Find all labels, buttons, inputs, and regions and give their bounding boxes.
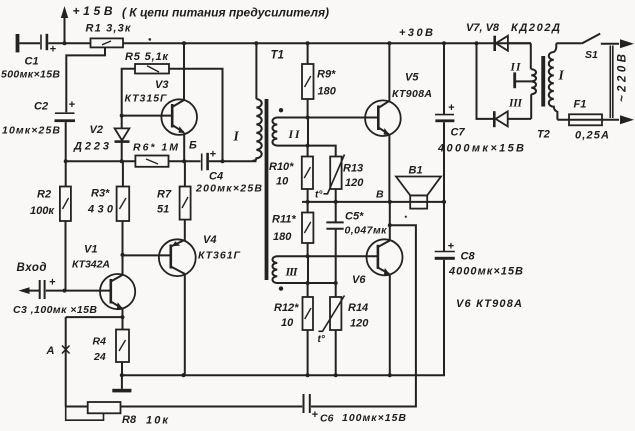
svg-text:V7, V8: V7, V8 [466,22,500,34]
wire R5 left rail [122,69,135,129]
wire V1 base [46,290,111,292]
node winding III top [306,254,310,258]
svg-text:0,25А: 0,25А [575,130,609,142]
resistor R14 thermal [319,283,345,375]
wire top rail [123,42,531,44]
svg-text:0,047мк: 0,047мк [345,225,388,237]
wire node B rail [302,201,444,203]
transistor V5 [365,43,401,202]
svg-text:V6: V6 [352,274,366,286]
svg-text:180: 180 [318,86,337,98]
resistor R9 [302,43,314,117]
wire feedback to node B [311,225,416,406]
speck [405,216,407,218]
diode V2 [115,128,130,161]
svg-text:R11*: R11* [272,214,296,226]
svg-text:+: + [50,44,57,56]
svg-text:+: + [448,241,455,253]
svg-text:+: + [210,149,217,161]
capacitor C4 [202,149,257,171]
svg-text:+: + [49,277,56,289]
capacitor C1 [16,34,91,56]
svg-text:Т1: Т1 [271,50,284,62]
node A cross mark [62,346,70,354]
svg-text:R14: R14 [348,302,368,314]
T2 winding I [549,43,558,119]
svg-text:R3*: R3* [91,188,110,200]
svg-text:C5*: C5* [345,211,364,223]
resistor R13 thermal [308,146,345,202]
svg-text:100мк×15В: 100мк×15В [342,412,406,424]
T1 winding II [272,108,308,146]
svg-text:t°: t° [315,190,323,201]
resistor R6 [135,156,168,167]
node junction dots on top rail [63,38,479,45]
svg-text:R7: R7 [157,189,172,201]
wire R2 to input node [65,221,67,291]
node feedback tap [388,223,392,227]
wire V3 base [122,115,172,117]
svg-text:КТ315Г: КТ315Г [125,93,168,105]
T2 winding III [531,81,536,119]
mains dimension lines [610,46,613,119]
transformer T2 core [541,56,545,107]
svg-text:R13: R13 [343,163,363,175]
wire V1 collector [122,221,124,275]
node winding II top [306,116,310,120]
transistor V1 [100,274,135,330]
svg-text:( К цепи питания предусилите: ( К цепи питания предусилителя) [122,6,329,20]
svg-text:V1: V1 [84,244,97,256]
capacitor C8 [435,202,455,375]
svg-text:R12*: R12* [274,302,299,314]
svg-text:I: I [558,68,565,83]
switch S1 [556,34,634,49]
wire node A vertical [65,317,67,406]
transistor V3 [161,43,197,161]
svg-text:+: + [448,102,455,114]
svg-text:I: I [233,129,240,144]
resistor R10 [302,146,313,202]
svg-text:III: III [508,98,523,110]
svg-text:V4: V4 [203,234,216,246]
svg-text:V3: V3 [155,79,168,91]
speaker B1 [396,177,441,209]
node dots on Б rail [64,159,225,163]
capacitor C3 [40,277,56,300]
wire V8 branch [477,43,495,119]
transistor V4 [123,220,196,376]
capacitor C5 [326,202,343,283]
diode V7 [495,36,531,51]
svg-text:10к: 10к [146,415,169,427]
wire R1 tap to C2 [66,47,105,112]
svg-text:Вход: Вход [17,262,47,274]
wire winding III bottom [308,282,336,284]
svg-text:C4: C4 [209,171,223,183]
wire feedback bottom rail left [66,406,88,408]
svg-text:430: 430 [87,204,114,216]
svg-text:II: II [510,62,522,74]
wire ground rail [122,374,445,376]
resistor R4 [116,330,129,376]
+15V supply arrow [61,6,68,43]
svg-text:R10*: R10* [269,161,294,173]
node dots ground rail [120,373,392,377]
resistor R2 [60,187,71,222]
svg-text:t°: t° [318,334,326,345]
svg-text:500мк×15В: 500мк×15В [1,69,60,81]
svg-text:51: 51 [157,204,169,216]
node V1 emitter junction [121,315,125,319]
svg-text:V2: V2 [90,124,103,136]
diode V8 [494,111,531,127]
resistor R11 [302,202,313,256]
svg-text:R6* 1М: R6* 1М [133,142,178,154]
svg-text:R9*: R9* [317,69,336,81]
svg-text:V5: V5 [405,72,419,84]
svg-text:C7: C7 [451,127,466,139]
node V4 base tap [121,253,125,257]
T2 winding II [531,43,536,81]
svg-text:C2: C2 [34,101,48,113]
T1 winding I primary [252,43,261,161]
wire R5 right to C4 node [169,69,223,162]
svg-text:КТ342А: КТ342А [72,259,110,271]
svg-text:10: 10 [276,176,289,188]
svg-text:10: 10 [281,317,294,329]
wire bottom rail to C6 [121,406,303,408]
svg-text:II: II [288,127,301,141]
transistor V6 [367,202,403,375]
transformer T1 core [265,99,269,280]
svg-text:R1 3,3к: R1 3,3к [86,23,132,35]
resistor R3 [117,161,130,221]
svg-text:24: 24 [93,351,106,363]
node winding II bottom [306,144,310,148]
svg-text:КТ361Г: КТ361Г [198,250,241,262]
svg-text:+30В: +30В [399,27,433,39]
resistor R7 [180,161,191,219]
svg-text:200мк×25В: 200мк×25В [195,183,262,195]
resistor R12 [303,283,314,375]
svg-text:C1: C1 [25,56,39,68]
T2 center tap [515,72,532,88]
wire V6 base [308,255,378,257]
wire node Б rail [66,160,136,162]
node winding III bottom [306,281,310,285]
wire R6 to C4 [169,160,201,162]
input arrow [19,287,40,294]
svg-text:Б: Б [189,140,197,152]
svg-text:120: 120 [350,318,369,330]
fuse F1 [557,114,619,125]
svg-text:C8: C8 [461,251,476,263]
svg-text:III: III [285,265,299,279]
svg-text:F1: F1 [574,99,587,111]
node dots on B rail [306,200,447,204]
svg-text:+15В: +15В [73,4,113,18]
svg-text:R5 5,1к: R5 5,1к [125,51,169,63]
node C5 R14 junction [334,281,338,285]
svg-text:180: 180 [273,231,292,243]
svg-text:В: В [376,189,384,201]
svg-text:C3 ,100мк ×15В: C3 ,100мк ×15В [13,304,97,316]
svg-text:120: 120 [345,177,364,189]
T1 winding III [272,256,308,291]
ground symbol [112,375,131,392]
resistor R5 [135,64,169,74]
svg-text:R8: R8 [122,414,137,426]
wire V5 base [308,117,378,119]
svg-text:C6: C6 [320,413,334,425]
resistor R1 [91,38,124,47]
mains lower arrow [620,115,634,124]
svg-text:+: + [312,409,319,421]
svg-text:4000мк×15В: 4000мк×15В [448,266,523,278]
capacitor C2 [55,99,76,187]
wire V1 emitter to node A [66,316,123,318]
svg-text:S1: S1 [585,49,598,61]
svg-text:100к: 100к [30,205,55,217]
resistor R8 [66,402,121,420]
svg-text:В1: В1 [409,165,423,177]
svg-text:10мк×25В: 10мк×25В [2,125,60,137]
node R2 input junction [63,289,67,293]
svg-text:V6 КТ908А: V6 КТ908А [456,298,522,310]
svg-text:Т2: Т2 [537,129,550,141]
capacitor C6 [304,394,319,421]
svg-text:A: A [46,345,55,357]
svg-text:+: + [69,99,76,111]
svg-text:КТ908А: КТ908А [392,88,432,100]
svg-text:R4: R4 [93,336,107,348]
node V3 base junction [120,114,124,118]
capacitor C7 [435,43,455,202]
svg-text:R2: R2 [37,189,51,201]
